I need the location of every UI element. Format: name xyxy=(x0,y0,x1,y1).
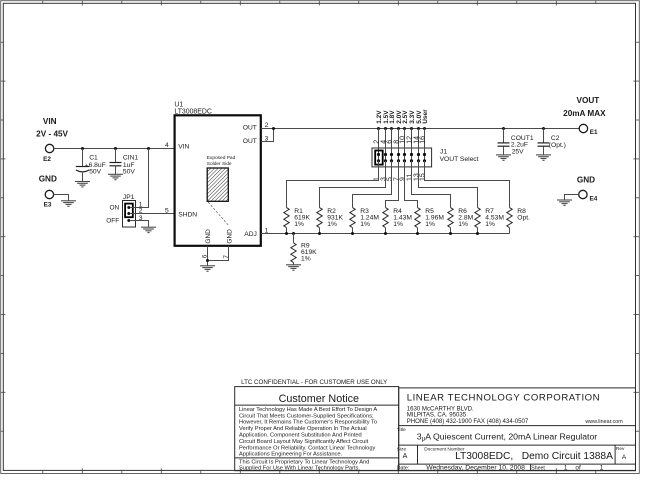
svg-text:1.8V: 1.8V xyxy=(389,110,396,124)
dashed line exposed pad to GND xyxy=(208,202,229,226)
wire J1 pin 3 to R2 xyxy=(320,161,386,208)
svg-text:Performance Or Reliability. Co: Performance Or Reliability. Contact Line… xyxy=(239,445,376,451)
resistor R7 4.53M xyxy=(475,208,505,234)
resistor R6 2.8M xyxy=(448,208,474,234)
svg-text:GND: GND xyxy=(577,176,595,185)
resistor R8 Opt. xyxy=(507,208,530,234)
wire J1 pin 15 to R8 xyxy=(425,161,510,208)
svg-text:20mA MAX: 20mA MAX xyxy=(563,109,606,118)
ground under COUT1 xyxy=(496,155,511,160)
svg-text:1.2V: 1.2V xyxy=(376,110,383,124)
svg-text:Solder Side: Solder Side xyxy=(207,161,232,167)
ground at E4 xyxy=(557,200,572,205)
ground under C1 xyxy=(75,182,90,187)
terminal E3 xyxy=(44,190,54,208)
svg-text:1: 1 xyxy=(600,465,604,472)
connector J1 VOUT Select xyxy=(372,109,479,181)
svg-text:A: A xyxy=(622,454,627,461)
svg-text:C1: C1 xyxy=(89,155,98,162)
wire JP1 pin1 to VIN xyxy=(130,149,148,208)
svg-text:15: 15 xyxy=(419,173,426,181)
svg-text:Opt.: Opt. xyxy=(517,214,530,221)
wire J1 pin 5 to R3 xyxy=(353,161,392,208)
svg-text:5: 5 xyxy=(386,177,393,181)
svg-text:1%: 1% xyxy=(327,221,337,228)
svg-text:VOUT: VOUT xyxy=(577,96,600,105)
ground under R9 xyxy=(286,265,301,270)
terminal E4 xyxy=(579,190,598,202)
svg-text:2: 2 xyxy=(373,140,380,144)
svg-text:2.2uF: 2.2uF xyxy=(511,142,528,149)
ground under JP1 xyxy=(141,227,156,232)
svg-text:VIN: VIN xyxy=(43,117,57,126)
svg-text:2V - 45V: 2V - 45V xyxy=(36,129,68,138)
svg-text:OUT: OUT xyxy=(243,125,257,132)
capacitor CIN1 1uF 50V xyxy=(110,149,139,176)
resistor R9 619K xyxy=(291,234,317,265)
svg-text:C2: C2 xyxy=(551,135,560,142)
capacitor C2 (Opt.) xyxy=(538,129,566,155)
ground at E3 xyxy=(61,201,76,206)
svg-text:50V: 50V xyxy=(123,169,135,176)
svg-text:Wednesday, December 10, 2008: Wednesday, December 10, 2008 xyxy=(426,465,525,472)
svg-text:Applications Engineering For A: Applications Engineering For Assistance. xyxy=(239,452,342,458)
svg-text:25V: 25V xyxy=(512,149,524,156)
svg-text:E2: E2 xyxy=(43,156,51,163)
svg-text:2.5V: 2.5V xyxy=(402,110,409,124)
svg-text:1%: 1% xyxy=(485,221,495,228)
svg-text:Circuit That Meets Customer-Su: Circuit That Meets Customer-Supplied Spe… xyxy=(239,413,374,419)
capacitor C1 6.8uF 50V (polarized) xyxy=(76,149,106,182)
svg-text:Date:: Date: xyxy=(397,465,409,471)
svg-text:50V: 50V xyxy=(89,169,101,176)
svg-text:(Opt.): (Opt.) xyxy=(549,142,566,149)
svg-text:10: 10 xyxy=(399,136,406,144)
svg-text:1%: 1% xyxy=(294,221,304,228)
wire E4 to ground xyxy=(565,195,579,200)
svg-text:Verify Proper And Reliable Ope: Verify Proper And Reliable Operation In … xyxy=(239,426,367,432)
svg-text:Size: Size xyxy=(397,446,407,452)
svg-text:OUT: OUT xyxy=(243,138,257,145)
svg-text:CIN1: CIN1 xyxy=(123,155,139,162)
svg-text:Sheet: Sheet xyxy=(531,465,545,471)
net label VOUT xyxy=(563,96,606,118)
svg-text:+: + xyxy=(85,163,88,169)
svg-text:www.linear.com: www.linear.com xyxy=(584,419,623,425)
svg-text:However, It Remains The Custom: However, It Remains The Customer's Respo… xyxy=(239,420,377,426)
terminal E2 xyxy=(43,144,54,163)
svg-text:U1: U1 xyxy=(174,101,183,108)
wire VOUT: U1 OUT to E1 xyxy=(261,127,579,142)
wire VIN: E2 to U1 xyxy=(54,147,175,150)
resistor R4 1.43M xyxy=(383,208,413,234)
svg-text:9: 9 xyxy=(399,177,406,181)
svg-text:LT3008EDC, Demo Circuit 1388: LT3008EDC, Demo Circuit 1388A xyxy=(455,451,613,462)
resistor R3 1.24M xyxy=(350,208,380,234)
net label GND (input) xyxy=(39,174,57,183)
svg-text:PHONE (408) 432-1900 FAX (408: PHONE (408) 432-1900 FAX (408) 434-0507 xyxy=(407,418,529,425)
resistor R5 1.96M xyxy=(415,208,445,234)
svg-text:1%: 1% xyxy=(425,221,435,228)
title block xyxy=(397,388,636,472)
svg-text:E3: E3 xyxy=(44,202,52,209)
svg-text:1%: 1% xyxy=(458,221,468,228)
svg-text:3μA Quiescent Current, 20mA Li: 3μA Quiescent Current, 20mA Linear Regul… xyxy=(417,431,598,442)
svg-text:Circuit Board Layout May Signi: Circuit Board Layout May Significantly A… xyxy=(239,439,369,445)
jumper JP1 (ON/OFF) xyxy=(106,194,135,227)
U1 exposed pad xyxy=(207,155,236,201)
wire JP1 pin2 to SHDN xyxy=(130,213,174,215)
svg-text:GND: GND xyxy=(227,229,234,244)
svg-text:16: 16 xyxy=(419,136,426,144)
ground under CIN1 xyxy=(108,174,123,179)
svg-text:Title: Title xyxy=(397,427,406,433)
IC U1 LT3008EDC linear regulator xyxy=(174,101,260,246)
svg-text:11: 11 xyxy=(406,174,413,181)
svg-text:12: 12 xyxy=(406,136,413,144)
svg-text:GND: GND xyxy=(39,174,57,183)
svg-text:1%: 1% xyxy=(360,221,370,228)
ground under U1 xyxy=(200,266,215,271)
svg-text:ADJ: ADJ xyxy=(244,231,257,238)
svg-text:OFF: OFF xyxy=(106,218,119,225)
svg-text:E4: E4 xyxy=(590,195,598,202)
capacitor COUT1 2.2uF 25V xyxy=(498,129,534,156)
svg-text:GND: GND xyxy=(205,229,212,244)
ground under C2 xyxy=(536,155,551,160)
svg-text:VIN: VIN xyxy=(178,143,189,150)
resistor R1 619K xyxy=(284,208,311,234)
terminal E1 xyxy=(579,124,598,136)
svg-text:1%: 1% xyxy=(393,221,403,228)
svg-text:1%: 1% xyxy=(301,256,311,263)
wire JP1 pin3 to ground xyxy=(130,221,148,228)
svg-text:4: 4 xyxy=(165,142,169,149)
svg-text:LTC CONFIDENTIAL - FOR CUSTOME: LTC CONFIDENTIAL - FOR CUSTOMER USE ONLY xyxy=(241,379,387,386)
svg-text:A: A xyxy=(403,453,408,460)
svg-text:Exposed Pad: Exposed Pad xyxy=(207,155,236,161)
net label VIN xyxy=(36,117,68,139)
net label GND (output) xyxy=(577,176,595,185)
svg-text:LINEAR TECHNOLOGY CORPORATION: LINEAR TECHNOLOGY CORPORATION xyxy=(407,392,600,403)
wire E3 to ground xyxy=(54,195,69,201)
svg-text:Application. Component Substit: Application. Component Substitution And … xyxy=(239,433,362,439)
svg-text:ON: ON xyxy=(109,205,119,212)
svg-text:J1: J1 xyxy=(440,148,447,155)
svg-text:1: 1 xyxy=(564,465,568,472)
svg-text:of: of xyxy=(575,465,581,472)
svg-text:User: User xyxy=(422,109,429,124)
svg-text:5: 5 xyxy=(165,207,169,214)
svg-text:3.3V: 3.3V xyxy=(409,110,416,124)
svg-text:Customer Notice: Customer Notice xyxy=(279,393,359,405)
wire J1 pin 1 to R1 xyxy=(287,161,379,208)
wire J1 pin 9 to R5 xyxy=(405,161,418,208)
customer notice box xyxy=(235,387,399,472)
svg-text:SHDN: SHDN xyxy=(178,212,197,219)
resistor R2 931K xyxy=(317,208,344,234)
svg-text:E1: E1 xyxy=(590,129,598,136)
svg-text:Rev: Rev xyxy=(616,446,625,452)
svg-text:Supplied For Use With Linear T: Supplied For Use With Linear Technology … xyxy=(239,465,360,471)
svg-text:6: 6 xyxy=(386,140,393,144)
wire J1 pin 7 to R4 xyxy=(386,161,399,208)
wire J1 pin 11 to R6 xyxy=(412,161,451,208)
svg-text:VOUT Select: VOUT Select xyxy=(440,156,479,163)
wire U1 GND pins to ground xyxy=(206,246,229,266)
wire ADJ line xyxy=(261,232,510,235)
svg-text:Linear Technology Has Made A B: Linear Technology Has Made A Best Effort… xyxy=(239,407,377,413)
wire J1 pin 13 to R7 xyxy=(419,161,478,208)
